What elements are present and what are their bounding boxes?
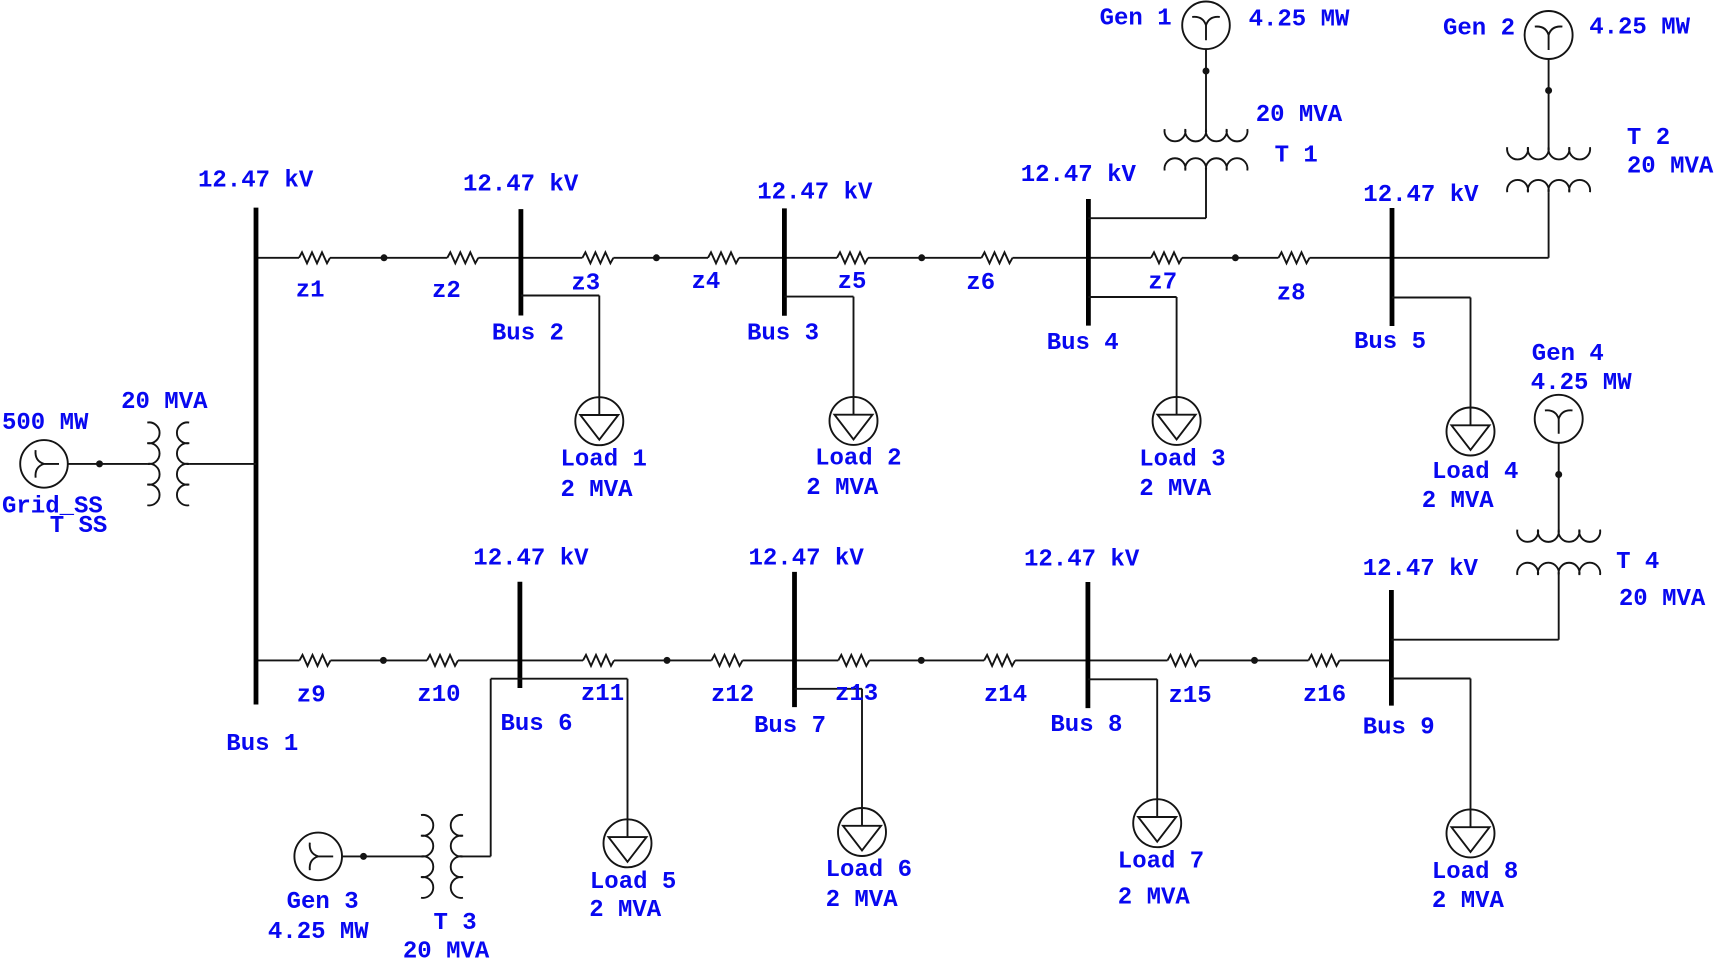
- bus Bus 4: [1086, 199, 1091, 326]
- svg-text:4.25 MW: 4.25 MW: [1531, 370, 1632, 397]
- load Load 7: [1133, 799, 1181, 847]
- svg-text:Gen 3: Gen 3: [287, 889, 359, 916]
- bus Bus 8: [1086, 582, 1091, 708]
- svg-text:Gen 2: Gen 2: [1443, 15, 1515, 42]
- generator Grid_SS: [20, 440, 68, 488]
- svg-text:2 MVA: 2 MVA: [1432, 888, 1505, 915]
- wire T 1 to Bus 4: [1088, 217, 1206, 219]
- wire Bus 4 load stub: [1088, 296, 1176, 298]
- svg-text:20 MVA: 20 MVA: [1619, 586, 1706, 613]
- bus Bus 7: [792, 572, 797, 707]
- resistor z7: [1151, 252, 1182, 263]
- svg-text:12.47 kV: 12.47 kV: [198, 168, 314, 195]
- junction dot: [1555, 471, 1562, 478]
- svg-text:20 MVA: 20 MVA: [1627, 154, 1714, 181]
- wire T 2 drop to feeder: [1548, 192, 1550, 258]
- resistor z4: [708, 252, 739, 263]
- generator Gen 2: [1525, 11, 1573, 59]
- generator Gen 1: [1182, 2, 1230, 50]
- svg-text:2 MVA: 2 MVA: [806, 475, 879, 502]
- bus Bus 5: [1390, 208, 1395, 326]
- svg-text:Bus 8: Bus 8: [1050, 712, 1122, 739]
- svg-text:T SS: T SS: [50, 513, 108, 540]
- generator Gen 4: [1535, 395, 1583, 443]
- wire T 3 riser to Bus 6: [490, 679, 492, 857]
- load Load 8: [1447, 809, 1495, 857]
- svg-text:T 1: T 1: [1275, 142, 1318, 169]
- wire T 1 drop: [1205, 171, 1207, 219]
- junction dot: [653, 254, 660, 261]
- resistor z15: [1168, 655, 1199, 666]
- wire top feeder segment 6: [868, 257, 982, 259]
- wire bottom feeder segment 3: [458, 659, 583, 661]
- svg-text:z5: z5: [838, 269, 867, 296]
- wire bottom feeder segment 8: [1199, 659, 1309, 661]
- svg-text:Bus 4: Bus 4: [1047, 330, 1119, 357]
- svg-text:T 3: T 3: [434, 910, 477, 937]
- svg-text:12.47 kV: 12.47 kV: [473, 545, 589, 572]
- wire Bus 2 load stub: [521, 295, 599, 297]
- wire bottom feeder segment 9: [1340, 659, 1392, 661]
- svg-text:z2: z2: [432, 278, 461, 305]
- wire Gen 1 to T 1: [1205, 49, 1207, 129]
- resistor z12: [712, 655, 743, 666]
- wire Gen 2 to T 2: [1548, 59, 1550, 147]
- junction dot: [1203, 68, 1210, 75]
- svg-text:2 MVA: 2 MVA: [1118, 885, 1191, 912]
- transformer T 3 primary coil: [421, 815, 433, 898]
- svg-text:Load 6: Load 6: [826, 857, 912, 884]
- svg-text:z11: z11: [581, 681, 624, 708]
- junction dot: [360, 853, 367, 860]
- svg-text:12.47 kV: 12.47 kV: [1021, 162, 1137, 189]
- wire Bus 3 load stub: [784, 296, 853, 298]
- wire top feeder segment 9: [1310, 257, 1549, 259]
- transformer T 4 secondary coil: [1517, 563, 1600, 575]
- wire Load 5 drop: [627, 679, 629, 837]
- wire T 4 drop: [1558, 575, 1560, 640]
- svg-text:z16: z16: [1303, 682, 1346, 709]
- svg-text:2 MVA: 2 MVA: [826, 887, 899, 914]
- svg-text:Load 5: Load 5: [590, 869, 676, 896]
- svg-text:12.47 kV: 12.47 kV: [1363, 182, 1479, 209]
- svg-text:Load 8: Load 8: [1432, 859, 1518, 886]
- svg-text:z15: z15: [1169, 683, 1212, 710]
- bus Bus 9: [1389, 590, 1394, 706]
- wire top feeder segment 5: [739, 257, 837, 259]
- wire Load 3 drop: [1176, 297, 1178, 415]
- svg-text:z13: z13: [835, 681, 878, 708]
- junction dot: [918, 657, 925, 664]
- wire top feeder segment 4: [613, 257, 708, 259]
- svg-text:Gen 4: Gen 4: [1532, 341, 1604, 368]
- svg-text:Bus 1: Bus 1: [226, 731, 298, 758]
- svg-text:12.47 kV: 12.47 kV: [1363, 556, 1479, 583]
- transformer T 2 secondary coil: [1507, 180, 1590, 192]
- svg-text:Load 3: Load 3: [1139, 447, 1225, 474]
- junction dot: [918, 254, 925, 261]
- wire bottom feeder segment 6: [869, 659, 984, 661]
- wire Bus 8 load stub: [1088, 678, 1157, 680]
- svg-text:z12: z12: [711, 682, 754, 709]
- transformer T 4 primary coil: [1517, 530, 1600, 542]
- svg-text:z4: z4: [692, 269, 721, 296]
- wire bottom feeder segment 1: [256, 659, 300, 661]
- svg-text:Load 1: Load 1: [561, 447, 647, 474]
- svg-text:4.25 MW: 4.25 MW: [268, 919, 369, 946]
- resistor z11: [583, 655, 614, 666]
- wire Bus 6 load stub: [491, 678, 628, 680]
- wire Gen 4 to T 4: [1558, 443, 1560, 530]
- load Load 3: [1153, 397, 1201, 445]
- load Load 4: [1447, 408, 1495, 456]
- wire top feeder segment 7: [1013, 257, 1152, 259]
- transformer T 3 secondary coil: [451, 815, 463, 898]
- svg-text:Bus 7: Bus 7: [754, 713, 826, 740]
- resistor z9: [300, 655, 331, 666]
- wire T SS to Bus 1: [189, 463, 256, 465]
- wire Bus 9 load stub: [1391, 678, 1470, 680]
- resistor z5: [837, 252, 868, 263]
- bus Bus 1: [254, 208, 259, 705]
- svg-text:T 2: T 2: [1627, 125, 1670, 152]
- svg-text:Bus 5: Bus 5: [1354, 329, 1426, 356]
- resistor z10: [427, 655, 458, 666]
- svg-text:Load 2: Load 2: [815, 445, 901, 472]
- wire bottom feeder segment 4: [614, 659, 712, 661]
- resistor z14: [984, 655, 1015, 666]
- junction dot: [380, 657, 387, 664]
- wire Bus 5 load stub: [1392, 297, 1471, 299]
- load Load 5: [604, 819, 652, 867]
- svg-text:12.47 kV: 12.47 kV: [749, 546, 865, 573]
- resistor z6: [982, 252, 1013, 263]
- svg-text:12.47 kV: 12.47 kV: [757, 180, 873, 207]
- svg-text:500 MW: 500 MW: [2, 410, 89, 437]
- svg-text:4.25 MW: 4.25 MW: [1249, 6, 1350, 33]
- wire Load 6 drop: [861, 689, 863, 826]
- wire Load 2 drop: [853, 297, 855, 415]
- wire T 3 out: [463, 855, 491, 857]
- svg-text:20 MVA: 20 MVA: [1256, 102, 1343, 129]
- svg-text:Bus 6: Bus 6: [501, 711, 573, 738]
- svg-text:Gen 1: Gen 1: [1100, 5, 1172, 32]
- wire Load 4 drop: [1470, 298, 1472, 426]
- wire bottom feeder segment 5: [743, 659, 839, 661]
- svg-text:20 MVA: 20 MVA: [403, 939, 490, 959]
- transformer T 2 primary coil: [1507, 147, 1590, 159]
- wire Load 1 drop: [598, 296, 600, 416]
- svg-text:2 MVA: 2 MVA: [1139, 476, 1212, 503]
- junction dot: [1545, 87, 1552, 94]
- svg-text:20 MVA: 20 MVA: [121, 389, 208, 416]
- wire top feeder segment 3: [478, 257, 582, 259]
- svg-text:z3: z3: [571, 271, 600, 298]
- svg-text:2 MVA: 2 MVA: [589, 897, 662, 924]
- svg-text:2 MVA: 2 MVA: [1422, 488, 1495, 515]
- svg-text:2 MVA: 2 MVA: [561, 477, 634, 504]
- transformer T 1 secondary coil: [1165, 158, 1248, 170]
- svg-text:T 4: T 4: [1616, 549, 1659, 576]
- resistor z2: [447, 252, 478, 263]
- svg-text:4.25 MW: 4.25 MW: [1589, 15, 1690, 42]
- svg-text:Load 4: Load 4: [1432, 459, 1518, 486]
- resistor z8: [1279, 252, 1310, 263]
- transformer T SS primary coil: [147, 422, 159, 505]
- svg-text:12.47 kV: 12.47 kV: [1024, 547, 1140, 574]
- resistor z13: [838, 655, 869, 666]
- resistor z3: [582, 252, 613, 263]
- svg-text:z1: z1: [296, 278, 325, 305]
- junction dot: [96, 460, 103, 467]
- svg-text:Bus 3: Bus 3: [747, 320, 819, 347]
- wire top feeder segment 8: [1182, 257, 1279, 259]
- svg-text:12.47 kV: 12.47 kV: [463, 172, 579, 199]
- svg-text:Bus 9: Bus 9: [1363, 715, 1435, 742]
- junction dot: [381, 254, 388, 261]
- wire bottom feeder segment 2: [331, 659, 428, 661]
- svg-text:z9: z9: [297, 683, 326, 710]
- svg-text:z10: z10: [417, 682, 460, 709]
- svg-text:z14: z14: [984, 682, 1027, 709]
- wire Gen 3 to T 3: [342, 855, 421, 857]
- svg-text:Load 7: Load 7: [1118, 849, 1204, 876]
- bus Bus 3: [782, 208, 787, 315]
- load Load 6: [838, 808, 886, 856]
- junction dot: [1232, 254, 1239, 261]
- svg-text:z7: z7: [1148, 270, 1177, 297]
- wire Grid_SS to T SS: [68, 463, 148, 465]
- load Load 2: [830, 397, 878, 445]
- wire top feeder segment 2: [330, 257, 447, 259]
- load Load 1: [575, 397, 623, 445]
- bus Bus 6: [518, 582, 523, 688]
- resistor z1: [299, 252, 330, 263]
- bus Bus 2: [519, 209, 524, 315]
- wire Bus 7 load stub: [795, 688, 863, 690]
- junction dot: [1251, 657, 1258, 664]
- wire T 4 to Bus 9: [1391, 639, 1558, 641]
- svg-text:z8: z8: [1277, 281, 1306, 308]
- wire Load 8 drop: [1470, 679, 1472, 828]
- wire Load 7 drop: [1156, 679, 1158, 817]
- resistor z16: [1309, 655, 1340, 666]
- svg-text:Bus 2: Bus 2: [492, 320, 564, 347]
- transformer T SS secondary coil: [177, 422, 189, 505]
- generator Gen 3: [294, 833, 342, 881]
- wire bottom feeder segment 7: [1015, 659, 1167, 661]
- transformer T 1 primary coil: [1164, 129, 1247, 141]
- junction dot: [664, 657, 671, 664]
- svg-text:z6: z6: [966, 270, 995, 297]
- wire top feeder segment 1: [256, 257, 299, 259]
